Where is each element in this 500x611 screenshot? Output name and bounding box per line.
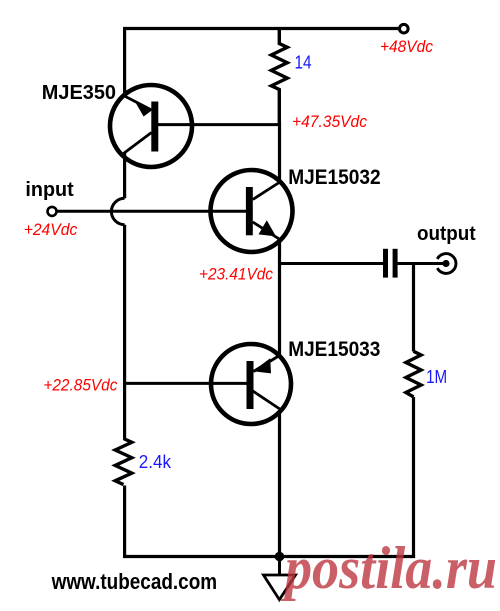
watermark postila.ru bbox=[280, 535, 497, 601]
label input bbox=[25, 179, 74, 201]
wire right rail (Q3 collector to bottom rail) bbox=[278, 411, 281, 557]
svg-text:14: 14 bbox=[295, 52, 312, 73]
label MJE350 bbox=[42, 82, 116, 104]
wire input line to Q2 base bbox=[57, 210, 247, 213]
label +47.35Vdc bbox=[292, 112, 367, 131]
wire top rail bbox=[123, 27, 398, 30]
svg-text:www.tubecad.com: www.tubecad.com bbox=[51, 569, 217, 594]
label +22.85Vdc bbox=[43, 375, 117, 394]
wire Q1 base to node +47.35 bbox=[157, 123, 281, 126]
terminal +48V bbox=[400, 24, 409, 33]
svg-text:MJE15032: MJE15032 bbox=[288, 165, 380, 189]
transistor Q3 MJE15033 bbox=[211, 344, 291, 424]
svg-text:+23.41Vdc: +23.41Vdc bbox=[199, 265, 273, 284]
resistor 14 bbox=[271, 29, 287, 124]
svg-text:+24Vdc: +24Vdc bbox=[24, 220, 78, 239]
svg-text:output: output bbox=[417, 223, 476, 245]
resistor 2.4k bbox=[115, 439, 132, 485]
ground bbox=[264, 575, 296, 600]
label MJE15032 bbox=[288, 165, 380, 189]
label MJE15033 bbox=[288, 337, 380, 361]
label +24Vdc bbox=[24, 220, 78, 239]
wire right rail (Q2 emitter to Q3 emitter) bbox=[278, 241, 281, 357]
label output bbox=[417, 223, 476, 245]
wire right output rail (junction down to 1M) bbox=[412, 264, 415, 352]
terminal output bbox=[437, 254, 456, 274]
wire left rail (2.4k to bottom rail) bbox=[123, 486, 126, 557]
wire Q3 base line bbox=[123, 382, 247, 385]
wire ground stub bbox=[278, 557, 281, 576]
label 2.4k bbox=[139, 451, 172, 472]
label www.tubecad.com bbox=[51, 569, 217, 594]
terminal input bbox=[48, 207, 57, 216]
svg-text:2.4k: 2.4k bbox=[139, 451, 172, 472]
node junction bottom bbox=[275, 552, 285, 562]
label 1M bbox=[426, 366, 447, 387]
svg-text:+47.35Vdc: +47.35Vdc bbox=[292, 112, 367, 131]
wire right output rail (1M to bottom rail) bbox=[412, 397, 415, 558]
wire left rail upper (top rail to Q1 emitter) bbox=[123, 27, 126, 97]
label +23.41Vdc bbox=[199, 265, 273, 284]
transistor Q1 MJE350 bbox=[110, 85, 192, 167]
svg-text:+22.85Vdc: +22.85Vdc bbox=[43, 375, 117, 394]
svg-text:input: input bbox=[25, 179, 74, 201]
wire output line (rail to capacitor) bbox=[278, 262, 383, 265]
capacitor bbox=[383, 249, 398, 278]
wire left rail (hop down to resistor 2.4k) bbox=[123, 225, 126, 439]
wire right rail (node down to Q2 collector) bbox=[278, 122, 281, 182]
wire output line (capacitor to output terminal) bbox=[398, 262, 444, 265]
wire hop over input line bbox=[111, 198, 124, 224]
wire left rail (Q1 collector down to hop) bbox=[123, 153, 126, 198]
svg-text:+48Vdc: +48Vdc bbox=[380, 37, 433, 56]
resistor 1M bbox=[406, 351, 421, 397]
label 14 bbox=[295, 52, 312, 73]
label +48Vdc bbox=[380, 37, 433, 56]
svg-text:1M: 1M bbox=[426, 366, 447, 387]
svg-text:postila.ru: postila.ru bbox=[280, 535, 497, 601]
svg-text:MJE350: MJE350 bbox=[42, 82, 116, 104]
wire bottom rail bbox=[123, 555, 415, 558]
svg-text:MJE15033: MJE15033 bbox=[288, 337, 380, 361]
transistor Q2 MJE15032 bbox=[211, 170, 293, 252]
